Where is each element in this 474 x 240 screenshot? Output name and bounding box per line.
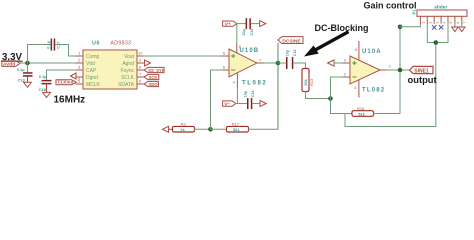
wire junction to R17 [211,128,227,130]
wire pin6 to ground [454,23,456,27]
U10B pin numbers [223,44,262,85]
wire T down to slider return [345,43,436,127]
IC pin numbers 10-6 [138,51,143,84]
svg-text:C18: C18 [39,87,47,92]
wire CAP pin3 to C18 [47,70,77,80]
wire C16 to ground arrow [253,103,260,105]
wire DCSINE down through junction to feedback row [277,44,279,130]
svg-text:Vdd: Vdd [86,61,95,67]
ground arrow right V+ [260,21,266,27]
resistor R18 51k feedback [352,106,374,116]
svg-text:R2: R2 [181,122,187,127]
net label SINE1 [410,66,434,74]
wire U10B out to junction [264,62,278,64]
wire Vout to U10B +in [144,55,222,57]
net label SS_SYN [144,67,165,73]
svg-text:C16: C16 [251,90,255,97]
capacitor C14 [242,18,254,35]
wire pin7 to ground [461,23,463,27]
wire pin5 down [447,23,449,42]
svg-text:R17: R17 [232,122,240,127]
ground arrow pin7 [459,27,465,32]
wire R18 to output rail [374,113,401,115]
IC pin numbers 1-5 [78,51,81,84]
net label SCK [144,74,159,80]
svg-text:MCLK: MCLK [86,82,101,88]
svg-text:AD9833: AD9833 [111,40,132,46]
svg-text:2: 2 [429,22,433,24]
wire junction to C12 [278,62,286,64]
annotation arrow [304,33,347,57]
wire U10A out to SINE1 [387,69,410,71]
svg-text:TL082: TL082 [242,80,267,86]
supply 3.3V [2,52,23,63]
svg-text:7: 7 [463,22,467,24]
net label V- [223,101,236,108]
ground arrow U10B feedback left [162,126,168,132]
svg-text:6: 6 [456,22,460,24]
U10B pin stubs [222,44,264,88]
capacitor C13 [17,63,33,82]
svg-text:0.1µ: 0.1µ [45,40,50,48]
ground arrow Dgnd pin4 [71,73,77,79]
svg-text:1: 1 [422,22,426,24]
svg-text:Comp: Comp [86,54,100,60]
capacitor C16 [244,90,256,109]
svg-text:5: 5 [449,22,453,24]
svg-text:561: 561 [233,127,240,132]
U10A pin numbers [344,47,392,90]
wire C12 to R13 [294,63,306,68]
svg-text:U10A: U10A [362,49,382,55]
svg-text:R13: R13 [309,78,314,86]
wire up to C17 [28,45,51,64]
svg-text:SCK: SCK [149,75,158,80]
junction U10A output [398,68,403,73]
resistor R2 1k [173,122,195,132]
svg-text:10µ: 10µ [244,91,248,97]
svg-text:Dgnd: Dgnd [86,75,98,81]
wire V+ rail down to pin8 [236,24,238,44]
connector slider [412,4,468,16]
wire inverting rail [331,77,344,114]
wire R13 to inverting node [306,92,331,99]
junction U10B feedback [208,127,213,132]
svg-text:CAP: CAP [86,68,97,74]
junction inverting node [328,96,333,101]
svg-text:R18: R18 [357,106,365,111]
wire arrow to R2 [169,128,173,130]
svg-text:10k: 10k [303,79,308,86]
ground arrow U10A +in [328,60,334,66]
no-connect X pin3 [432,26,436,30]
svg-text:C12: C12 [293,49,297,56]
svg-text:DCSINE: DCSINE [282,38,301,44]
wire pin4 down to V- [236,88,238,104]
connector pin numbers [422,22,467,24]
op-amp U10B [229,48,267,87]
svg-text:C14: C14 [250,28,254,36]
svg-text:U10B: U10B [240,48,260,54]
svg-text:Agnd: Agnd [122,61,134,67]
svg-text:SDATA: SDATA [118,82,135,88]
wire V- to C16 [236,103,247,105]
svg-text:TL082: TL082 [362,87,385,93]
ground under C18 [43,85,51,98]
svg-text:4: 4 [442,22,446,24]
svg-text:3: 3 [435,22,439,24]
svg-text:10µ: 10µ [242,29,246,35]
net label SDO [144,81,158,87]
no-connect X pin4 [439,26,443,30]
svg-text:DC-Blocking: DC-Blocking [315,23,369,33]
net label AVdd [2,61,20,68]
svg-text:output: output [408,74,437,85]
wire arrow to +in [334,62,343,64]
junction AVdd node [25,61,30,66]
svg-text:V−: V− [224,101,230,107]
junction output to slider pin1 [398,25,403,30]
junction wiper [434,40,439,45]
svg-text:Gain control: Gain control [364,0,417,10]
svg-text:SS_SYN: SS_SYN [148,68,165,73]
svg-text:16MHz: 16MHz [54,95,86,106]
net label DCSINE [278,37,303,45]
wire C17 to Comp pin1 [56,45,76,57]
svg-text:Fsync: Fsync [121,68,135,74]
capacitor C17 [45,39,60,51]
wire inverting row to R18 [331,113,353,115]
U10A pin stubs [343,42,387,98]
net label V+ [223,21,237,28]
svg-text:C13: C13 [18,77,26,82]
svg-text:P1: P1 [412,9,417,15]
wire R17 to DCSINE rail [249,128,279,130]
svg-text:1k: 1k [180,127,185,132]
svg-text:AVdd: AVdd [3,62,15,68]
svg-text:CLKout: CLKout [58,80,74,85]
svg-text:51k: 51k [358,111,365,116]
wire C14 to ground arrow [251,23,259,25]
wire V+ to C14 [237,23,246,25]
wire R2 to feedback junction [195,128,211,130]
svg-text:10: 10 [138,51,143,56]
svg-text:Vout: Vout [124,54,135,60]
svg-text:V+: V+ [225,22,231,28]
svg-text:SCLK: SCLK [121,75,135,81]
IC U6 AD9833 [83,40,137,89]
junction U10B output [276,61,281,66]
wire AVdd to Vdd pin2 [20,62,76,64]
svg-text:10µ: 10µ [285,50,289,56]
ground arrow right V- [260,101,266,107]
ground arrow pin6 [452,27,458,32]
capacitor C18 [39,74,52,92]
wire output junction to slider pin1 [400,23,420,27]
capacitor C12 DC blocking [285,49,297,69]
svg-text:C17: C17 [56,42,61,49]
svg-text:SDO: SDO [149,82,159,87]
svg-text:0.1µ: 0.1µ [39,74,47,79]
resistor R17 561 [227,122,249,132]
svg-text:0.1µ: 0.1µ [17,67,25,72]
ground arrow Agnd pin9 [145,60,151,66]
IC pins left [76,56,83,84]
op-amp U10A [350,49,385,93]
wire output rail vertical [399,27,401,114]
connector pins [420,16,461,23]
svg-text:U6: U6 [92,40,100,46]
IC pins right [137,56,144,84]
wire feedback junction up to -in [211,70,223,129]
ground under C13 [24,77,32,87]
wire pin2 to wiper junction [427,23,448,42]
net label CLKout [56,80,76,85]
resistor R13 vertical [302,69,314,92]
